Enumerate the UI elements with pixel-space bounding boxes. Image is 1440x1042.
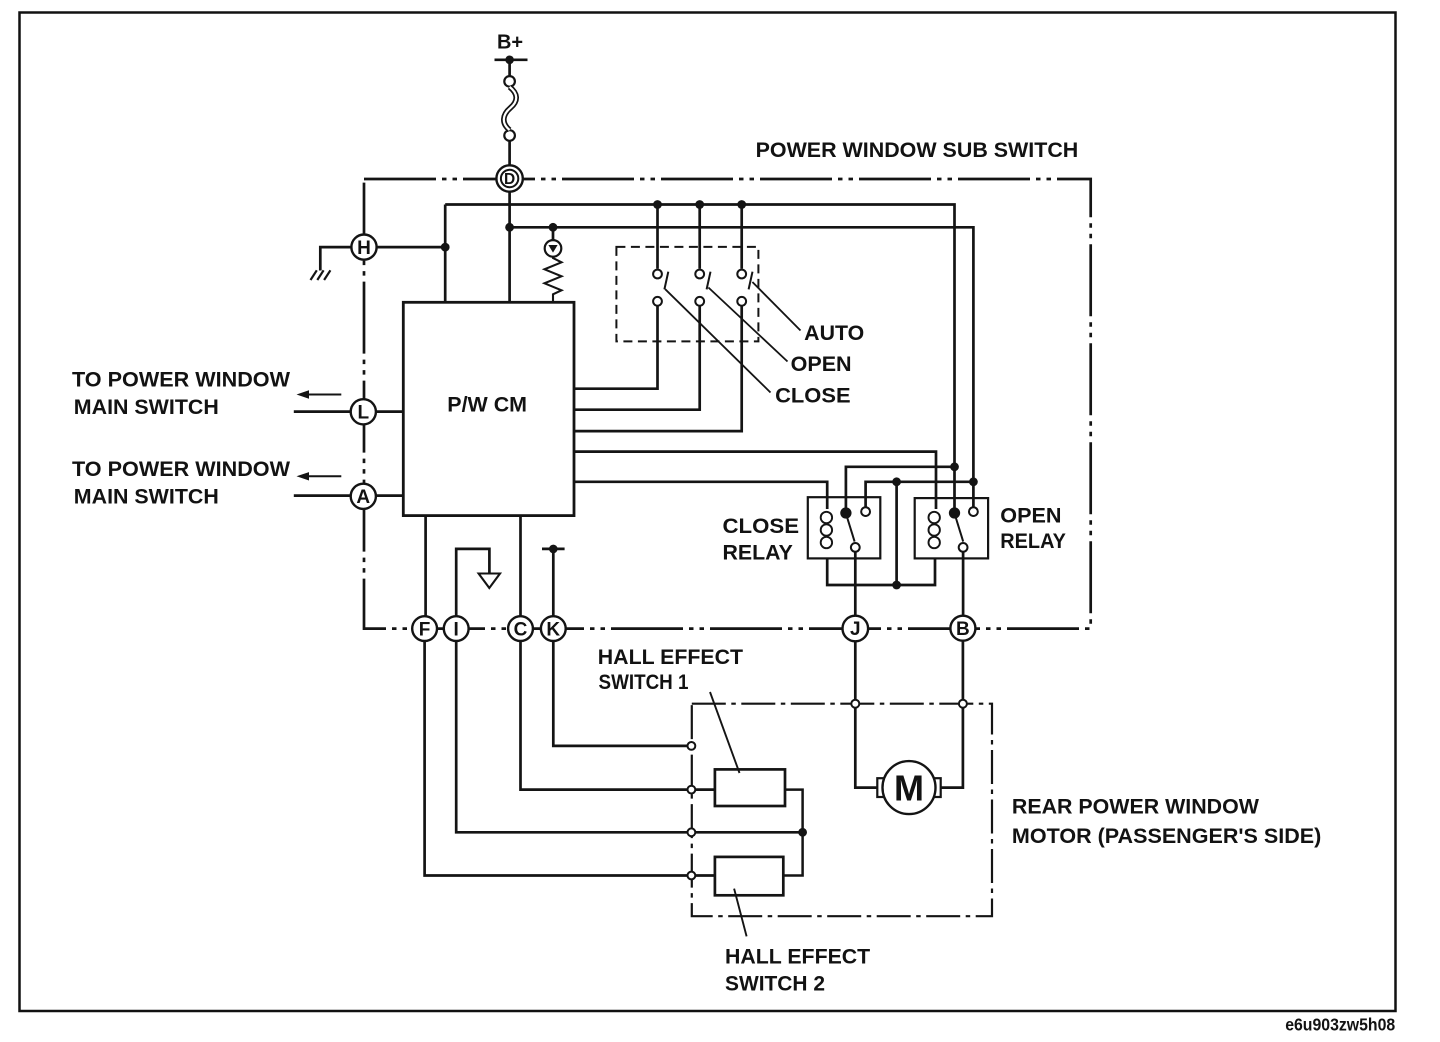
svg-text:OPEN: OPEN (791, 353, 852, 376)
wire: AUTO switch to P/W CM (574, 306, 658, 389)
wire: CLOSE switch to P/W CM (574, 306, 742, 431)
svg-text:A: A (356, 487, 370, 508)
close relay contacts: common, NO, armature, output (842, 507, 870, 552)
motor M circle (883, 761, 936, 814)
wire: open relay output to B (962, 552, 965, 616)
wire: lamp branch from bus227 (552, 227, 555, 240)
svg-text:SWITCH 1: SWITCH 1 (599, 671, 689, 694)
CLOSE switch contacts and arm (737, 270, 752, 306)
motor brushes (877, 778, 886, 797)
wire: hall switch right-side link (783, 790, 802, 876)
OPEN switch contacts and arm (695, 270, 710, 306)
svg-text:K: K (546, 619, 560, 640)
svg-text:REAR POWER WINDOW: REAR POWER WINDOW (1012, 796, 1259, 819)
svg-text:M: M (894, 768, 924, 809)
leader line hall effect switch 2 (734, 889, 747, 937)
svg-text:SWITCH 2: SWITCH 2 (725, 973, 825, 996)
svg-text:HALL EFFECT: HALL EFFECT (598, 646, 743, 669)
svg-text:AUTO: AUTO (804, 322, 864, 345)
svg-text:TO POWER WINDOW: TO POWER WINDOW (72, 368, 290, 391)
leader line hall effect switch 1 (710, 692, 740, 773)
arrow to power window main switch (upper) (305, 394, 341, 396)
open relay contacts: common, NO, armature, output (950, 507, 978, 552)
svg-text:RELAY: RELAY (723, 542, 793, 565)
wire: C to hall effect switch 1 (521, 641, 716, 789)
wire: P/W CM bottom to C (519, 516, 522, 616)
P/W CM box (403, 302, 574, 515)
wire: H to junction (377, 246, 446, 249)
wire: H to ground (320, 247, 351, 270)
wire: B down into motor box to motor (941, 641, 963, 788)
svg-text:D: D (504, 171, 515, 188)
wire: fusible link to connector D (508, 141, 511, 166)
wire: K to motor box boundary (553, 641, 687, 746)
svg-text:L: L (357, 403, 369, 424)
svg-text:C: C (514, 619, 528, 640)
connector circles (351, 165, 976, 641)
wire: vertical feed into P/W CM top (H junction) (444, 205, 447, 303)
leader line AUTO (752, 282, 800, 331)
AUTO switch contacts and arm (653, 270, 668, 306)
wire: relay coil return link (895, 482, 898, 585)
svg-text:OPEN: OPEN (1000, 505, 1061, 528)
hall effect switch 1 box (715, 769, 785, 806)
svg-text:TO POWER WINDOW: TO POWER WINDOW (72, 458, 290, 481)
wire: coil bottom bus (827, 558, 935, 585)
open relay box (915, 498, 988, 558)
wire: J down into motor box to motor (855, 641, 877, 787)
svg-text:B: B (956, 619, 970, 640)
ground symbol (311, 270, 331, 280)
switch unit dashed box (616, 247, 758, 342)
wire: B+ to fusible link (508, 60, 511, 76)
wire: I to open arrow stub (456, 549, 489, 616)
wire: D down to P/W CM (508, 192, 511, 303)
svg-text:J: J (850, 619, 861, 640)
svg-text:e6u903zw5h08: e6u903zw5h08 (1285, 1015, 1395, 1035)
close relay box (808, 497, 881, 558)
close relay coil (821, 512, 832, 548)
wire: OPEN switch column (698, 205, 701, 269)
svg-text:B+: B+ (497, 32, 523, 54)
wire: OPEN switch to P/W CM (574, 306, 700, 410)
svg-text:CLOSE: CLOSE (723, 515, 800, 538)
leader line OPEN (708, 288, 787, 362)
leader line CLOSE (665, 289, 770, 392)
svg-text:MOTOR (PASSENGER'S SIDE): MOTOR (PASSENGER'S SIDE) (1012, 825, 1321, 848)
arrow to power window main switch (lower) (305, 475, 341, 477)
wire: close relay NO contact to bus227 vertical (866, 482, 974, 508)
svg-text:MAIN SWITCH: MAIN SWITCH (74, 396, 219, 419)
indicator lamp (545, 240, 562, 257)
svg-text:CLOSE: CLOSE (775, 384, 851, 407)
wire: I to hall switch common (456, 641, 802, 832)
wire: AUTO switch column (656, 205, 659, 269)
wire: CLOSE switch column (740, 205, 743, 269)
wire: F to hall effect switch 2 (425, 641, 715, 875)
wire: close relay common to bus205 vertical (846, 467, 955, 509)
wire: bus from D-vertical at y=227 to right, down to open relay NO contact (510, 227, 974, 507)
open relay coil (929, 512, 940, 548)
svg-text:POWER WINDOW SUB SWITCH: POWER WINDOW SUB SWITCH (756, 139, 1079, 162)
wire: L to main switch (left) (294, 410, 404, 413)
hall effect switch 2 box (715, 857, 783, 895)
svg-text:I: I (454, 619, 459, 640)
svg-text:RELAY: RELAY (1000, 530, 1066, 553)
power window sub switch boundary box (364, 179, 1091, 629)
wire: close relay output to J (854, 552, 857, 616)
wire: A to main switch (left) (294, 494, 404, 497)
resistor (545, 257, 562, 303)
open arrowhead (to P/W CM internal) (479, 574, 500, 589)
wire: P/W CM to open relay coil (574, 452, 936, 509)
svg-text:MAIN SWITCH: MAIN SWITCH (74, 486, 219, 509)
wire: P/W CM bottom to F (424, 516, 427, 616)
wire: K stub terminal (542, 549, 565, 616)
rear power window motor boundary box (692, 704, 992, 917)
svg-text:F: F (419, 619, 431, 640)
wire: P/W CM to close relay coil (574, 482, 827, 509)
svg-text:P/W CM: P/W CM (447, 394, 527, 417)
wire: B+ bar (495, 58, 528, 61)
boundary marker circles on motor box (688, 700, 967, 880)
fusible link (504, 76, 516, 141)
wire: bus y=205 from P/W CM feed to right, down to open relay common (445, 205, 954, 510)
svg-text:H: H (357, 238, 371, 259)
svg-text:HALL EFFECT: HALL EFFECT (725, 946, 870, 969)
